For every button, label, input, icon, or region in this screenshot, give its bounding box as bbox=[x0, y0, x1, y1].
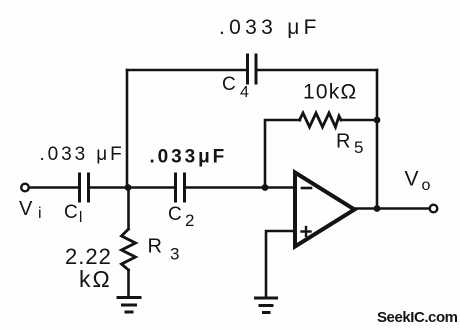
svg-text:l: l bbox=[79, 209, 82, 226]
wire: top feedback left segment bbox=[127, 69, 247, 72]
svg-text:2: 2 bbox=[185, 211, 194, 230]
label Vo bbox=[405, 168, 431, 195]
node: inverting input junction bbox=[262, 184, 269, 191]
svg-text:10kΩ: 10kΩ bbox=[303, 81, 357, 104]
wire: op-amp output bbox=[355, 207, 430, 210]
op-amp minus sign bbox=[302, 187, 311, 190]
op-amp plus sign bbox=[302, 227, 311, 236]
label C2 bbox=[168, 204, 194, 230]
resistor R5 bbox=[300, 113, 342, 127]
svg-text:R: R bbox=[148, 236, 162, 258]
wire: R3 branch vertical top bbox=[127, 188, 130, 230]
wire: R3 to ground bbox=[127, 270, 130, 297]
svg-text:o: o bbox=[422, 177, 431, 194]
capacitor C4 bbox=[248, 55, 257, 83]
svg-text:C: C bbox=[64, 202, 78, 223]
wire: non-inverting input to ground bbox=[266, 231, 295, 297]
resistor R3 bbox=[122, 229, 136, 270]
svg-text:V: V bbox=[405, 168, 419, 191]
output terminal Vo bbox=[430, 205, 438, 213]
svg-text:i: i bbox=[38, 205, 42, 222]
wire: left vertical from top wire to input node bbox=[126, 70, 129, 188]
svg-text:.033μF: .033μF bbox=[150, 147, 228, 168]
svg-text:C: C bbox=[168, 204, 182, 225]
capacitor C1 bbox=[80, 174, 89, 201]
ground (non-inverting input) bbox=[256, 298, 277, 313]
label C1 bbox=[64, 202, 82, 226]
svg-text:.033 μF: .033 μF bbox=[219, 16, 321, 39]
wire: C1 to node A bbox=[89, 186, 176, 189]
label R3 bbox=[148, 236, 180, 264]
input terminal Vi bbox=[21, 184, 29, 192]
node: R5 right junction bbox=[374, 117, 381, 124]
capacitor C2 bbox=[176, 174, 185, 201]
label Vi bbox=[19, 198, 42, 222]
svg-text:R: R bbox=[336, 131, 350, 153]
op-amp U1 bbox=[295, 173, 355, 247]
wire: right vertical from top wire to output node bbox=[376, 70, 379, 209]
wire: R5 to right vertical bbox=[341, 119, 377, 122]
wire: C2 to inverting node bbox=[185, 186, 296, 189]
wire: top feedback right segment bbox=[256, 69, 377, 72]
wire: R5 branch left segment bbox=[265, 120, 300, 188]
wire: input lead bbox=[29, 186, 79, 189]
svg-text:SeekIC.com: SeekIC.com bbox=[377, 309, 458, 326]
svg-text:5: 5 bbox=[354, 138, 363, 157]
svg-text:V: V bbox=[19, 198, 33, 220]
node A (input junction) bbox=[125, 184, 132, 191]
svg-text:C: C bbox=[222, 74, 236, 95]
label R5 bbox=[336, 131, 363, 158]
label C4 bbox=[222, 74, 249, 101]
ground (below R3) bbox=[118, 298, 140, 313]
node: output junction bbox=[374, 205, 381, 212]
svg-text:3: 3 bbox=[170, 245, 179, 264]
svg-text:kΩ: kΩ bbox=[79, 266, 112, 292]
svg-text:.033 μF: .033 μF bbox=[40, 144, 125, 165]
svg-text:4: 4 bbox=[240, 84, 249, 101]
label 2.22 kOhm (R3 value) bbox=[65, 244, 112, 292]
